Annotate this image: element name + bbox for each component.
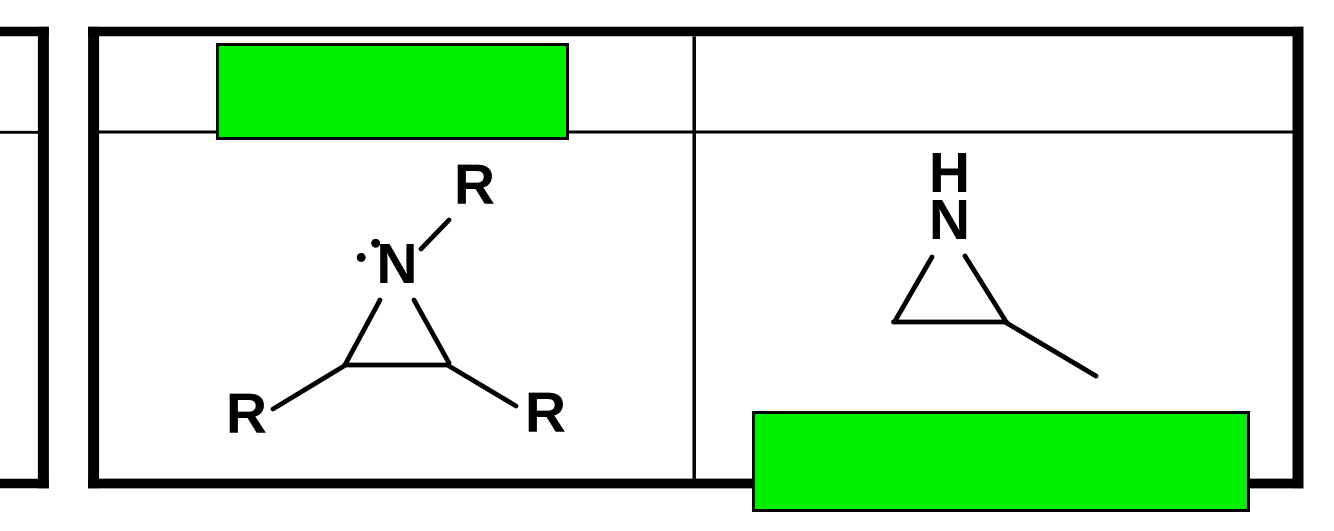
left structure: bond right carbon to R — [449, 366, 516, 406]
main table top border — [88, 27, 1304, 37]
right structure: ring bond N to right carbon — [965, 256, 1005, 320]
svg-text:R: R — [226, 382, 267, 446]
left partial table bottom border — [0, 479, 49, 489]
left partial table right border — [38, 27, 49, 489]
left structure: bond N to top R — [421, 220, 449, 249]
main table bottom border — [88, 479, 1304, 489]
main table column divider line — [692, 37, 696, 479]
right structure: ring bond N to left carbon — [895, 257, 932, 321]
green highlight box bottom-right — [754, 413, 1249, 511]
right structure: methyl bond — [1005, 322, 1096, 376]
svg-text:R: R — [525, 381, 566, 445]
left structure: lone pair dot 1 — [371, 239, 380, 248]
right structure: ring bond carbon-carbon base — [894, 320, 1007, 325]
svg-text:N: N — [929, 188, 970, 252]
main table row divider line — [98, 131, 1293, 134]
left structure: ring bond carbon-carbon base — [345, 363, 449, 368]
main table right border — [1293, 27, 1304, 489]
left partial table row divider line — [0, 131, 39, 134]
left structure: ring bond N to right carbon — [414, 300, 449, 363]
left structure: bond left carbon to R — [273, 366, 344, 409]
svg-text:N: N — [376, 232, 417, 296]
main table left border — [88, 27, 99, 489]
left structure: ring bond N to left carbon — [346, 300, 380, 363]
green highlight box top-left header — [218, 45, 568, 139]
svg-text:R: R — [454, 153, 495, 217]
left structure: lone pair dot 2 — [357, 253, 366, 262]
left partial table top border — [0, 27, 49, 37]
